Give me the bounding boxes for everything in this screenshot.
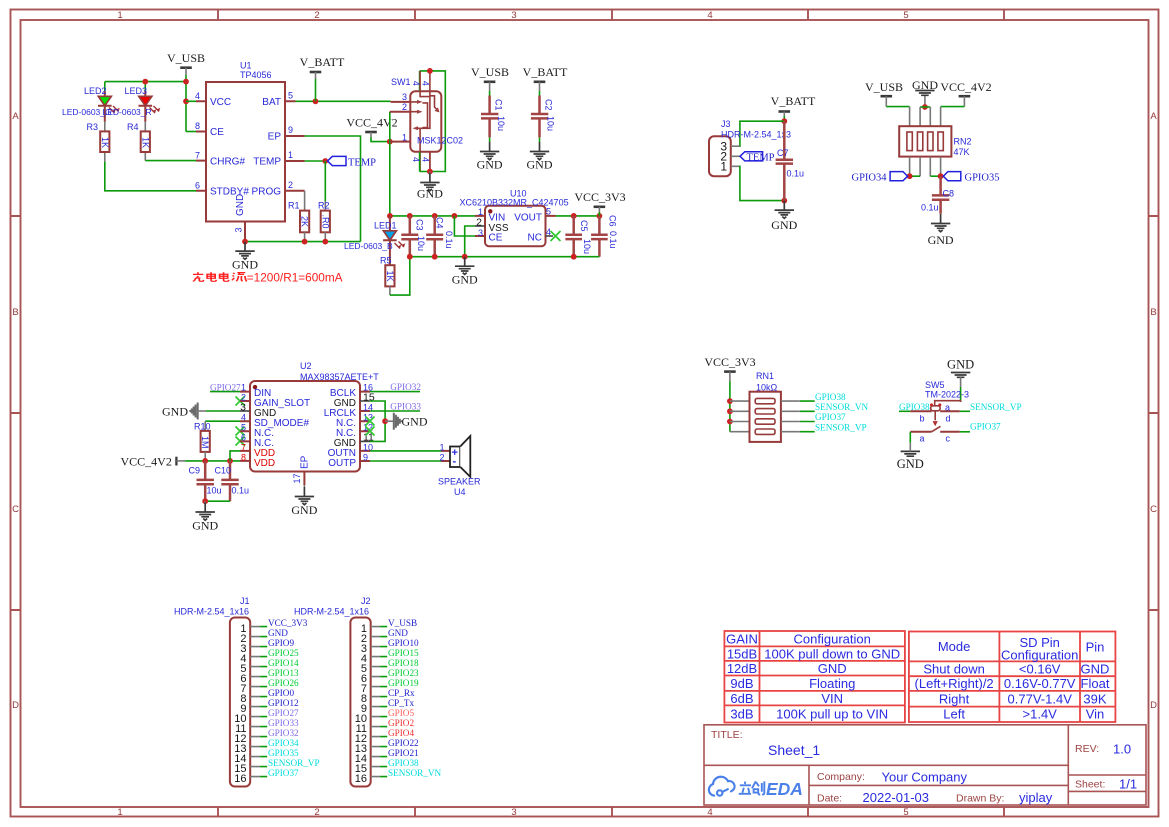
wire SW1 pin2 down to LDO rail [389, 112, 391, 216]
svg-text:OUTP: OUTP [328, 458, 356, 469]
resistor R3 [100, 122, 110, 162]
svg-text:Left: Left [943, 707, 965, 722]
RN2 pin wires top [910, 107, 941, 127]
svg-text:LED2: LED2 [84, 86, 107, 96]
RN1 left pin wires [730, 401, 750, 432]
svg-text:7: 7 [241, 442, 246, 452]
svg-text:C2: C2 [543, 99, 553, 111]
svg-text:GND: GND [818, 661, 847, 676]
switch SW5 TM-2022-3 [910, 401, 960, 432]
net port TEMP (U1) [328, 156, 377, 168]
svg-text:GND: GND [402, 415, 428, 429]
net port GPIO35 [943, 172, 999, 184]
junction GND RN2 [922, 104, 928, 110]
svg-text:Vin: Vin [1086, 707, 1105, 722]
wire OUTP to speaker [370, 460, 441, 462]
svg-text:1K: 1K [140, 137, 150, 148]
ground under J3 [771, 201, 797, 232]
svg-text:Floating: Floating [809, 676, 855, 691]
junction C5 bottom [571, 254, 577, 260]
svg-text:Company:: Company: [817, 771, 865, 783]
svg-text:VCC_4V2: VCC_4V2 [121, 455, 172, 469]
J1 pin stubs and wires [250, 627, 267, 777]
svg-text:C: C [1150, 504, 1157, 515]
title block labels [711, 729, 1105, 805]
svg-text:SENSOR_VP: SENSOR_VP [815, 422, 867, 432]
capacitor C7 [776, 121, 804, 200]
svg-text:GND: GND [947, 358, 974, 372]
svg-text:R2: R2 [318, 201, 330, 211]
svg-text:1: 1 [288, 150, 293, 160]
svg-text:GPIO0: GPIO0 [268, 688, 294, 698]
svg-text:16: 16 [234, 773, 246, 785]
svg-text:0.77V-1.4V: 0.77V-1.4V [1008, 691, 1073, 706]
header J3 HDR-M-2.54_1x3 [709, 136, 740, 176]
junction SW1 pin1 [387, 139, 393, 145]
ground under EP [291, 485, 317, 517]
LED1 (blue) [383, 216, 405, 265]
svg-text:CE: CE [489, 233, 503, 244]
svg-text:Mode: Mode [938, 639, 971, 654]
svg-text:3: 3 [478, 228, 483, 238]
net port GPIO34 [851, 172, 907, 184]
svg-text:TM-2022-3: TM-2022-3 [925, 390, 969, 400]
svg-text:CHRG#: CHRG# [210, 157, 245, 168]
wire RN2 pin joins [910, 175, 941, 177]
wire C10 to C9 gnd [205, 500, 230, 502]
svg-text:GPIO38: GPIO38 [899, 402, 930, 412]
svg-text:GPIO35: GPIO35 [268, 748, 299, 758]
wire VCC feed [186, 100, 196, 102]
svg-text:GPIO2: GPIO2 [388, 718, 414, 728]
svg-text:GPIO38: GPIO38 [388, 758, 419, 768]
U10 pin names [489, 213, 543, 244]
ground under SW5 [897, 443, 924, 471]
svg-text:4: 4 [707, 10, 712, 21]
svg-text:B: B [1150, 307, 1156, 318]
svg-text:R5: R5 [380, 256, 392, 266]
svg-text:4: 4 [241, 412, 246, 422]
resistor R10 [200, 421, 210, 461]
wire CE feed [186, 131, 196, 133]
svg-text:1K: 1K [100, 137, 110, 148]
svg-text:R3: R3 [87, 122, 99, 132]
wire R5 loop to ground rail [390, 257, 410, 295]
svg-text:V_USB: V_USB [388, 618, 417, 628]
capacitor C6 [591, 215, 618, 257]
svg-text:GPIO12: GPIO12 [268, 698, 299, 708]
frame row letters right [1150, 111, 1157, 711]
svg-text:VOUT: VOUT [514, 213, 542, 224]
svg-text:GPIO26: GPIO26 [268, 678, 299, 688]
svg-text:5: 5 [903, 10, 908, 21]
frame column numbers bottom [117, 807, 908, 818]
svg-text:0.1u: 0.1u [444, 231, 454, 249]
svg-text:A: A [1150, 111, 1157, 122]
junction gnd right [382, 418, 388, 424]
svg-text:GPIO19: GPIO19 [388, 678, 419, 688]
ground under SW1 [417, 172, 443, 201]
junction TEMP [322, 158, 328, 164]
svg-text:8: 8 [195, 121, 200, 131]
svg-text:R1: R1 [288, 201, 300, 211]
svg-text:TEMP: TEMP [348, 158, 376, 169]
svg-text:2K: 2K [300, 216, 310, 227]
junction C3 top [407, 213, 413, 219]
LED2 (green) [98, 91, 120, 122]
svg-text:J3: J3 [721, 119, 731, 129]
speaker pin numbers [439, 442, 444, 462]
svg-text:9dB: 9dB [730, 676, 753, 691]
svg-text:SENSOR_VP: SENSOR_VP [970, 402, 1022, 412]
junction VSS gnd [462, 254, 468, 260]
svg-text:47K: 47K [954, 147, 970, 157]
ground under C9 [192, 501, 218, 532]
svg-text:4: 4 [421, 81, 431, 86]
svg-text:4: 4 [546, 227, 551, 237]
capacitor C2 [531, 96, 556, 138]
header J1 body [230, 618, 250, 787]
svg-text:3dB: 3dB [730, 707, 753, 722]
logo cloud icon [709, 777, 735, 796]
net flag VCC_4V2 (U2) [121, 455, 241, 469]
svg-text:<0.16V: <0.16V [1019, 662, 1061, 677]
svg-text:0.1u: 0.1u [608, 231, 618, 249]
svg-text:GPIO21: GPIO21 [388, 748, 419, 758]
junction RN1 row2 [727, 408, 733, 414]
svg-text:0.1u: 0.1u [232, 486, 250, 496]
wire BCLK to GPIO32 [370, 391, 420, 393]
ground under U10 [452, 257, 478, 287]
svg-text:C10: C10 [215, 466, 232, 476]
svg-text:GPIO9: GPIO9 [268, 638, 294, 648]
svg-text:VCC_3V3: VCC_3V3 [704, 355, 755, 369]
svg-text:2: 2 [402, 102, 407, 112]
svg-text:GND: GND [477, 158, 503, 172]
svg-text:GND: GND [235, 194, 246, 216]
svg-text:Shut down: Shut down [923, 662, 984, 677]
resistor R5 [385, 265, 395, 295]
U2 pin numbers [240, 382, 375, 483]
frame column numbers top [117, 10, 908, 21]
svg-text:EDA: EDA [766, 779, 803, 799]
svg-text:GND: GND [268, 628, 288, 638]
svg-text:HDR-M-2.54_1x3: HDR-M-2.54_1x3 [721, 130, 791, 140]
svg-text:REV:: REV: [1075, 743, 1099, 755]
svg-text:V_BATT: V_BATT [771, 94, 816, 108]
svg-text:0.1u: 0.1u [787, 169, 805, 179]
net flag VCC_4V2 (RN2) [940, 80, 991, 107]
resistor R1 [300, 191, 310, 242]
svg-text:100K pull down to GND: 100K pull down to GND [764, 646, 900, 661]
resistor R2 [320, 201, 330, 242]
svg-text:C: C [12, 504, 19, 515]
svg-text:3: 3 [234, 227, 244, 232]
junction at VCC pin wire [183, 98, 189, 104]
wire SD_MODE to R10 [205, 420, 240, 422]
resistor network RN2 47K [899, 126, 951, 156]
svg-text:4: 4 [411, 157, 421, 162]
IC U10 XC6210B332MR body [475, 206, 556, 247]
svg-text:GPIO15: GPIO15 [388, 648, 419, 658]
svg-text:GPIO23: GPIO23 [388, 668, 419, 678]
svg-text:5: 5 [288, 91, 293, 101]
capacitor C10 [215, 461, 250, 501]
wire GND to RN2 pins 2,3 [920, 106, 930, 108]
svg-text:(Left+Right)/2: (Left+Right)/2 [915, 676, 994, 691]
junction top rail at LED3 [142, 79, 148, 85]
svg-text:5: 5 [903, 807, 908, 818]
svg-text:GPIO14: GPIO14 [268, 658, 299, 668]
svg-text:LED-0603_B: LED-0603_B [344, 241, 393, 251]
svg-text:VCC_3V3: VCC_3V3 [268, 618, 308, 628]
svg-text:C9: C9 [189, 466, 201, 476]
svg-text:17: 17 [292, 473, 302, 483]
frame column ticks bottom [218, 807, 1004, 817]
svg-text:10u: 10u [582, 239, 592, 254]
wire VSS to ground rail [465, 226, 475, 257]
svg-text:1: 1 [241, 382, 246, 392]
wire top rail LED2/LED3 to V_USB [105, 82, 186, 132]
net flag GND (U2 right) [385, 413, 428, 430]
net flag GND (RN2 top) [912, 78, 938, 92]
svg-text:PROG: PROG [252, 187, 282, 198]
wire EP return [305, 136, 361, 242]
svg-text:VCC_4V2: VCC_4V2 [940, 80, 991, 94]
wire R3 to STDBY# [105, 162, 196, 191]
net flag V_BATT (C2) [523, 65, 568, 96]
svg-text:7: 7 [195, 150, 200, 160]
svg-text:D: D [12, 700, 19, 711]
net flag GND (SW5 top) [947, 358, 974, 402]
svg-text:SW5: SW5 [925, 380, 945, 390]
svg-text:SENSOR_VP: SENSOR_VP [268, 758, 320, 768]
junction C4 top [432, 213, 438, 219]
svg-text:16: 16 [355, 773, 367, 785]
ground under U1 [232, 242, 258, 272]
resistor R4 [140, 122, 150, 161]
red note text 充电电流=1200/R1=600mA [193, 272, 247, 281]
junction V_BATT J3 [781, 118, 787, 124]
svg-text:NC: NC [528, 233, 542, 244]
U1 pin numbers [195, 91, 293, 233]
svg-text:Your Company: Your Company [882, 770, 968, 785]
svg-text:3: 3 [402, 92, 407, 102]
svg-text:GPIO37: GPIO37 [815, 412, 846, 422]
no-connect X pin12 [366, 427, 375, 436]
junction V_BATT stem [313, 98, 319, 104]
junction C9 bottom [202, 498, 208, 504]
junction R1 bottom [302, 239, 308, 245]
no-connect X pin5 [236, 427, 245, 436]
svg-text:2: 2 [439, 453, 444, 463]
capacitor C5 [565, 216, 592, 257]
wire J3 pin3 to V_BATT [739, 121, 784, 146]
RN2 pin wires bottom [910, 157, 941, 177]
svg-text:4: 4 [707, 807, 712, 818]
svg-text:SPEAKER: SPEAKER [438, 477, 481, 487]
svg-text:5: 5 [546, 207, 551, 217]
svg-text:TEMP: TEMP [253, 157, 281, 168]
capacitor C3 [401, 216, 426, 257]
svg-text:GPIO32: GPIO32 [390, 382, 421, 392]
svg-text:Drawn By:: Drawn By: [956, 793, 1004, 805]
svg-text:10u: 10u [416, 236, 426, 251]
svg-text:2022-01-03: 2022-01-03 [863, 790, 930, 805]
svg-text:9: 9 [363, 452, 368, 462]
svg-text:V_BATT: V_BATT [300, 55, 345, 69]
speaker U4 [441, 436, 470, 477]
GAIN table text [726, 631, 900, 721]
svg-text:GND: GND [452, 272, 478, 286]
frame row letters left [12, 111, 19, 711]
svg-text:SENSOR_VN: SENSOR_VN [388, 768, 441, 778]
LED3 (red) [139, 91, 161, 122]
wire OUTN to speaker [370, 450, 441, 452]
svg-text:.R0: .R0 [320, 215, 330, 229]
wire CE tie to VIN [454, 216, 475, 236]
svg-text:4: 4 [421, 157, 431, 162]
wire BAT to SW1 pin3 [296, 100, 391, 102]
svg-text:100K pull up to VIN: 100K pull up to VIN [776, 707, 888, 722]
J1 net labels [268, 618, 320, 778]
svg-text:A: A [12, 111, 19, 122]
svg-text:LED3: LED3 [125, 86, 148, 96]
svg-text:Sheet_1: Sheet_1 [768, 742, 820, 758]
svg-text:GND: GND [771, 218, 797, 232]
svg-text:6: 6 [195, 181, 200, 191]
svg-text:U1: U1 [240, 61, 252, 71]
svg-text:LED1: LED1 [374, 221, 397, 231]
svg-text:MSK12C02: MSK12C02 [417, 136, 463, 146]
wire TEMP to port [305, 160, 328, 162]
wire GPIO27 to DIN [210, 391, 240, 393]
svg-text:GPIO33: GPIO33 [268, 718, 299, 728]
svg-text:D: D [1150, 700, 1157, 711]
svg-text:>1.4V: >1.4V [1023, 707, 1058, 722]
capacitor C9 [189, 461, 222, 501]
svg-text:12dB: 12dB [727, 661, 757, 676]
svg-text:J1: J1 [240, 596, 250, 606]
svg-text:CP_Rx: CP_Rx [388, 688, 415, 698]
svg-text:b: b [920, 414, 925, 424]
svg-text:1.0: 1.0 [1113, 742, 1131, 757]
net flag V_USB (top of U1) [167, 51, 205, 82]
J1 pin numbers [234, 623, 246, 785]
junction top rail at V_USB [183, 79, 189, 85]
svg-text:13: 13 [363, 412, 373, 422]
svg-text:VIN: VIN [489, 213, 506, 224]
svg-text:9: 9 [288, 125, 293, 135]
svg-text:3: 3 [511, 807, 516, 818]
svg-text:GND: GND [388, 628, 408, 638]
svg-text:GPIO34: GPIO34 [268, 738, 299, 748]
J2 pin numbers [355, 623, 367, 785]
wire LDO ground rail [410, 256, 600, 258]
svg-text:d: d [946, 414, 951, 424]
wire R4 to CHRG# [145, 160, 196, 162]
svg-text:B: B [12, 307, 18, 318]
svg-text:GND: GND [192, 518, 218, 532]
svg-text:Right: Right [939, 691, 970, 706]
svg-text:GND: GND [162, 405, 188, 419]
wire GND pins 15-11 [370, 401, 385, 441]
capacitor C8 [921, 176, 954, 214]
net flag V_BATT (J3) [771, 94, 816, 121]
junction C10/VDD7 [227, 458, 233, 464]
svg-text:GPIO37: GPIO37 [970, 421, 1001, 431]
gnd stem RN2 [924, 95, 926, 107]
svg-text:GPIO13: GPIO13 [268, 668, 299, 678]
amplifier U2 MAX98357AETE+T body [240, 381, 370, 485]
capacitor C4 [426, 216, 454, 257]
svg-text:GND: GND [291, 503, 317, 517]
svg-text:V_USB: V_USB [471, 65, 509, 79]
svg-text:GPIO38: GPIO38 [815, 392, 846, 402]
svg-text:R4: R4 [127, 122, 139, 132]
svg-text:CP_Tx: CP_Tx [388, 698, 414, 708]
svg-text:10u: 10u [496, 116, 506, 131]
frame column ticks top [218, 10, 1004, 21]
svg-text:GPIO4: GPIO4 [388, 728, 414, 738]
svg-text:C3: C3 [414, 219, 424, 231]
svg-text:Pin: Pin [1086, 640, 1105, 655]
wire GPIO38 to SW5 [899, 410, 910, 412]
svg-text:2: 2 [288, 180, 293, 190]
switch SW1 MSK12C02 [390, 71, 446, 172]
logo text 立创 [739, 781, 765, 794]
svg-text:6: 6 [241, 432, 246, 442]
SW5 contact letters [920, 403, 951, 444]
svg-text:0.16V-0.77V: 0.16V-0.77V [1004, 676, 1076, 691]
wire SENSOR_VP to SW5 [960, 410, 970, 412]
svg-text:6dB: 6dB [730, 691, 753, 706]
junction RN1 row3 [727, 419, 733, 425]
svg-text:Float: Float [1081, 676, 1110, 691]
svg-text:EP: EP [300, 455, 311, 469]
net flag V_BATT (top of SW1) [300, 55, 345, 101]
svg-text:10kΩ: 10kΩ [756, 383, 778, 393]
svg-text:GPIO34: GPIO34 [851, 172, 887, 183]
svg-text:1: 1 [402, 132, 407, 142]
ground under C1 [477, 137, 503, 171]
svg-text:HDR-M-2.54_1x16: HDR-M-2.54_1x16 [174, 607, 249, 617]
svg-text:GND: GND [527, 158, 553, 172]
svg-text:0.1u: 0.1u [921, 203, 939, 213]
svg-text:C4: C4 [434, 217, 444, 229]
svg-text:GND: GND [1081, 662, 1110, 677]
wire U1 ground rail [245, 241, 361, 243]
junction C4 bottom [432, 254, 438, 260]
wire GPIO37 to SW5 [960, 431, 970, 433]
svg-text:GPIO10: GPIO10 [388, 638, 419, 648]
junction GPIO35/C8 [938, 173, 944, 179]
svg-text:GPIO37: GPIO37 [268, 768, 299, 778]
svg-text:1/1: 1/1 [1119, 777, 1137, 792]
net flag GND (U2 pin3) [162, 403, 240, 420]
svg-text:4: 4 [411, 81, 421, 86]
wire VOUT rail [556, 215, 600, 217]
svg-text:CE: CE [210, 127, 224, 138]
svg-text:J2: J2 [361, 596, 371, 606]
wire TEMP junction down to R2 [324, 161, 326, 201]
junction C7 bottom [781, 198, 787, 204]
svg-text:TEMP: TEMP [747, 153, 775, 164]
capacitor C1 [481, 96, 506, 138]
no-connect X pin13 [366, 417, 375, 426]
no-connect X pin2 [236, 397, 245, 406]
junction VCC_3V3 stem [597, 213, 603, 219]
